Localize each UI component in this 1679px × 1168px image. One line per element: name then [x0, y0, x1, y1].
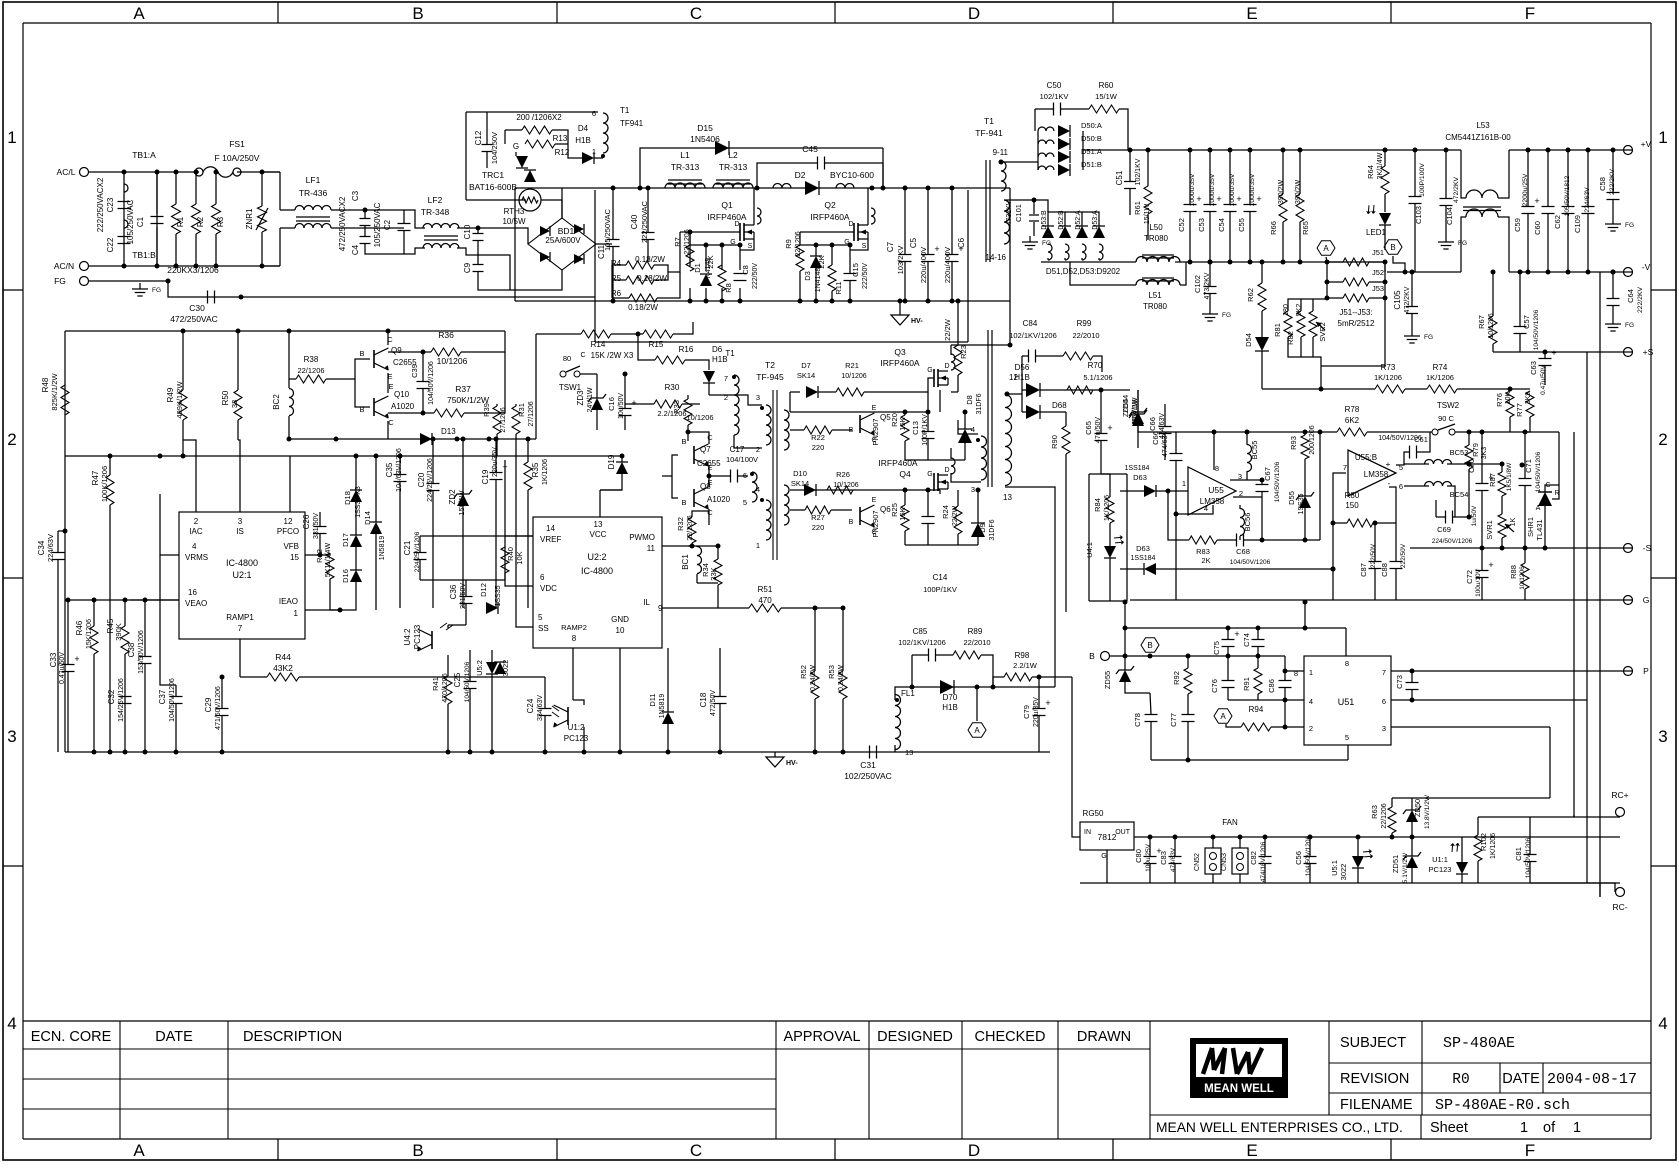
wire — [1586, 352, 1588, 883]
svg-text:331/50V: 331/50V — [313, 513, 320, 539]
junction — [1188, 260, 1193, 265]
svg-text:1K/1206: 1K/1206 — [1490, 833, 1497, 859]
capacitor C101 — [1029, 214, 1039, 216]
svg-text:D51:B: D51:B — [1081, 160, 1102, 169]
capacitor C104 — [1440, 198, 1453, 200]
wire — [1509, 389, 1511, 391]
resistor R77 — [1526, 391, 1534, 417]
wire — [1022, 411, 1026, 413]
wire — [800, 231, 854, 233]
resistor R36 — [431, 348, 461, 356]
wire — [238, 440, 240, 512]
resistor R61 — [1144, 186, 1152, 214]
wire — [1410, 547, 1633, 549]
wire — [57, 560, 59, 752]
svg-text:31DF6: 31DF6 — [989, 519, 996, 540]
junction — [1260, 478, 1265, 483]
junction — [1298, 148, 1303, 153]
svg-text:C76: C76 — [1210, 679, 1219, 693]
wire — [1175, 432, 1177, 453]
svg-text:+: + — [1234, 629, 1239, 639]
svg-text:TSW2: TSW2 — [1437, 401, 1460, 410]
resistor R66 — [1279, 194, 1287, 222]
svg-text:C13: C13 — [911, 421, 920, 435]
wire — [612, 188, 614, 239]
svg-text:C85: C85 — [913, 627, 928, 636]
resistor R31 — [512, 406, 520, 434]
resistor R1 — [172, 204, 181, 234]
wire — [1367, 431, 1432, 433]
wire — [600, 474, 622, 490]
wire — [1100, 441, 1102, 474]
junction — [1186, 758, 1191, 763]
wire — [1393, 256, 1405, 272]
junction — [214, 264, 219, 269]
junction — [601, 154, 605, 158]
svg-text:C9: C9 — [463, 262, 472, 273]
junction — [220, 675, 225, 680]
svg-text:TB1:A: TB1:A — [132, 150, 156, 160]
svg-text:D15: D15 — [697, 123, 713, 133]
svg-text:6: 6 — [743, 471, 747, 480]
junction — [1263, 835, 1268, 840]
transformer T1 primary winding — [1005, 395, 1012, 486]
svg-text:D55: D55 — [1287, 491, 1296, 505]
svg-text:4732KV: 4732KV — [1006, 200, 1013, 225]
svg-text:C22: C22 — [106, 237, 115, 252]
svg-text:104/100V: 104/100V — [726, 455, 758, 464]
wire — [1022, 355, 1028, 357]
resistor R6 — [629, 294, 657, 302]
svg-text:15/1W: 15/1W — [1095, 92, 1118, 101]
svg-text:IN: IN — [1084, 829, 1091, 836]
terminal B — [1101, 652, 1110, 661]
wire — [183, 440, 400, 456]
junction — [1123, 600, 1128, 605]
wire — [692, 511, 709, 517]
wire — [911, 655, 913, 687]
wire — [964, 443, 966, 460]
wire — [927, 412, 929, 431]
svg-text:G: G — [927, 367, 932, 374]
junction — [848, 299, 853, 304]
wire — [404, 248, 425, 254]
svg-text:200 /1206X2: 200 /1206X2 — [516, 113, 562, 122]
wire — [1261, 492, 1263, 497]
capacitor C9 — [473, 264, 484, 266]
junction — [1281, 260, 1286, 265]
wire — [789, 392, 791, 412]
svg-text:R64: R64 — [1366, 165, 1375, 179]
wire — [237, 171, 241, 173]
svg-text:TF-945: TF-945 — [756, 372, 784, 382]
wire — [927, 262, 929, 301]
wire — [1453, 516, 1469, 518]
op-amp U55:B — [1348, 450, 1396, 496]
junction — [1543, 546, 1548, 551]
wire — [1384, 225, 1386, 250]
svg-text:VFB: VFB — [283, 542, 299, 551]
svg-text:C31: C31 — [860, 760, 876, 770]
wire — [447, 655, 449, 676]
junction — [1146, 148, 1151, 153]
junction — [1611, 270, 1616, 275]
wire — [1227, 656, 1229, 680]
capacitor C63 — [1539, 358, 1552, 360]
junction — [720, 243, 725, 248]
wire — [709, 395, 762, 405]
diode D70 — [940, 680, 954, 694]
svg-text:R74: R74 — [1433, 363, 1448, 372]
wire — [640, 148, 883, 188]
capacitor C69 — [1445, 511, 1447, 524]
junction — [1238, 835, 1243, 840]
svg-text:22/2W: 22/2W — [943, 318, 952, 341]
junction — [446, 750, 451, 755]
wire — [1098, 258, 1100, 260]
diode D68 — [1026, 405, 1040, 419]
junction — [750, 472, 754, 476]
svg-text:-S: -S — [1643, 543, 1652, 553]
svg-text:RAMP1: RAMP1 — [226, 613, 254, 622]
wire — [1124, 656, 1126, 670]
svg-text:C29: C29 — [204, 697, 213, 712]
wire — [951, 188, 953, 254]
svg-text:ZD51: ZD51 — [1391, 855, 1400, 873]
wire — [1319, 432, 1321, 540]
wire — [195, 172, 197, 204]
svg-text:1K/1206: 1K/1206 — [1426, 373, 1454, 382]
svg-text:VCC: VCC — [590, 530, 607, 539]
wire — [422, 389, 424, 413]
wire — [1519, 334, 1521, 352]
svg-text:C68: C68 — [1236, 547, 1250, 556]
wire — [1284, 700, 1286, 727]
junction — [926, 186, 931, 191]
svg-text:390/2W: 390/2W — [1295, 180, 1302, 205]
capacitor C87 — [1369, 561, 1382, 563]
wire — [144, 664, 146, 752]
junction — [1166, 489, 1171, 494]
svg-text:C109: C109 — [1573, 215, 1582, 233]
wire — [1175, 461, 1177, 514]
svg-text:31DF6: 31DF6 — [976, 393, 983, 414]
wire — [1369, 281, 1385, 283]
wire — [1032, 676, 1072, 678]
wire — [904, 188, 906, 254]
svg-text:C74: C74 — [1242, 633, 1251, 647]
wire — [1080, 882, 1620, 884]
capacitor C57 — [1514, 326, 1527, 328]
svg-text:H1B: H1B — [575, 136, 591, 145]
wire — [951, 344, 1010, 346]
svg-text:Q4: Q4 — [899, 469, 911, 479]
wire — [647, 188, 649, 232]
wire — [1461, 837, 1463, 862]
wire — [1125, 682, 1150, 693]
wire — [800, 244, 850, 246]
svg-text:0.18/2W: 0.18/2W — [637, 274, 667, 283]
capacitor C25 — [464, 681, 477, 683]
svg-text:G: G — [513, 142, 519, 151]
svg-text:B: B — [1390, 243, 1395, 252]
wire — [1549, 727, 1551, 798]
inductor L2 — [713, 183, 753, 188]
wire — [708, 390, 710, 395]
wire — [1547, 150, 1549, 206]
wire — [700, 607, 749, 609]
svg-text:104/250V: 104/250V — [490, 132, 499, 164]
thermal switch TSW1 — [560, 371, 566, 377]
wire — [1481, 491, 1483, 548]
zone ticks — [277, 2, 279, 23]
svg-text:B: B — [1089, 651, 1095, 661]
svg-text:U2:2: U2:2 — [587, 552, 606, 562]
wire — [465, 112, 467, 200]
junction — [1283, 698, 1288, 703]
wire — [1327, 261, 1343, 263]
svg-text:AC/L: AC/L — [57, 167, 76, 177]
resistor R13 — [522, 126, 552, 134]
svg-text:R63: R63 — [1370, 805, 1379, 819]
svg-text:J52: J52 — [1372, 268, 1384, 277]
capacitor C71 — [1519, 478, 1532, 480]
wire — [1151, 759, 1348, 761]
wire — [739, 245, 741, 270]
wire — [477, 228, 479, 233]
wire — [515, 434, 517, 456]
junction — [1566, 270, 1571, 275]
wire — [462, 439, 464, 494]
wire — [477, 241, 479, 264]
wire — [647, 240, 649, 262]
resistor R98 — [1004, 673, 1032, 681]
svg-text:C79: C79 — [1022, 705, 1031, 719]
diode D16 — [350, 570, 362, 582]
svg-text:C36: C36 — [449, 584, 458, 599]
svg-text:+: + — [1216, 194, 1221, 204]
wire — [1396, 452, 1409, 465]
wire — [708, 383, 710, 390]
svg-text:R78: R78 — [1345, 405, 1360, 414]
wire — [1072, 677, 1080, 837]
svg-text:R60: R60 — [1099, 81, 1114, 90]
svg-text:D16: D16 — [341, 569, 350, 583]
svg-text:R82: R82 — [1286, 331, 1295, 345]
svg-text:2K: 2K — [1201, 556, 1210, 565]
junction — [1331, 521, 1336, 526]
svg-text:C55: C55 — [1237, 218, 1246, 232]
wire — [1213, 432, 1215, 470]
capacitor C16 — [619, 408, 632, 410]
diode D54 — [1255, 337, 1269, 351]
wire — [432, 491, 434, 608]
wire — [1599, 883, 1601, 897]
svg-text:R23: R23 — [959, 345, 968, 359]
junction — [903, 299, 908, 304]
svg-text:R62: R62 — [1246, 288, 1255, 302]
svg-text:R89: R89 — [968, 627, 983, 636]
capacitor C21 — [414, 552, 427, 554]
capacitor C7 — [899, 254, 912, 256]
junction — [1318, 430, 1323, 435]
transformer T2 coil top — [734, 405, 739, 435]
wire — [491, 674, 493, 752]
wire — [719, 704, 721, 752]
junction — [490, 750, 495, 755]
svg-text:R8: R8 — [724, 283, 733, 293]
svg-text:2: 2 — [1309, 724, 1313, 733]
wire — [387, 421, 389, 439]
svg-text:1K/1206: 1K/1206 — [542, 459, 549, 485]
capacitor C23 — [118, 201, 131, 203]
junction — [690, 544, 695, 549]
svg-text:D9: D9 — [978, 523, 987, 533]
wire — [541, 200, 562, 218]
capacitor C8 — [734, 273, 747, 275]
wire — [1411, 798, 1413, 810]
wire — [1612, 200, 1614, 218]
junction — [122, 264, 127, 269]
wire — [690, 244, 740, 246]
svg-text:E: E — [1246, 1141, 1257, 1160]
junction — [155, 170, 160, 175]
junction — [1256, 654, 1261, 659]
wire — [904, 412, 906, 415]
wire — [1285, 670, 1304, 672]
junction — [848, 243, 853, 248]
junction — [991, 685, 996, 690]
svg-text:102/1KV/1206: 102/1KV/1206 — [1009, 331, 1057, 340]
svg-text:B: B — [1147, 641, 1152, 650]
wire — [1106, 850, 1108, 883]
wire — [1612, 306, 1614, 318]
wire — [505, 536, 533, 586]
svg-text:R73: R73 — [1381, 363, 1396, 372]
capacitor C60 — [1542, 206, 1555, 208]
wire — [1384, 262, 1386, 272]
ground HV- — [891, 315, 909, 325]
wire — [1527, 214, 1529, 272]
capacitor C66 — [1159, 426, 1172, 428]
wire — [993, 677, 1004, 687]
svg-text:R1: R1 — [176, 216, 185, 227]
junction — [1226, 626, 1231, 631]
svg-text:C18: C18 — [699, 692, 708, 707]
junction — [976, 438, 980, 442]
svg-text:R22: R22 — [811, 433, 825, 442]
wire — [1262, 388, 1375, 390]
svg-text:1SS184: 1SS184 — [1125, 465, 1150, 472]
resistor R60 — [1089, 105, 1119, 113]
svg-text:RC+: RC+ — [1611, 790, 1628, 800]
svg-text:B: B — [359, 349, 364, 358]
wire — [1120, 149, 1461, 151]
capacitor C15 — [844, 273, 857, 275]
wire — [1034, 109, 1036, 131]
resistor R87 — [1498, 472, 1506, 496]
svg-text:C50: C50 — [1047, 81, 1062, 90]
svg-text:C45: C45 — [802, 144, 818, 154]
svg-text:BC1: BC1 — [681, 554, 690, 570]
wire — [492, 228, 528, 244]
resistor R4 — [626, 261, 654, 269]
wire — [1417, 432, 1430, 452]
junction — [903, 488, 908, 493]
wire — [1109, 558, 1111, 601]
wire — [1321, 365, 1385, 367]
junction — [1526, 270, 1531, 275]
svg-text:C77: C77 — [1169, 713, 1178, 727]
svg-text:1N5406: 1N5406 — [690, 134, 720, 144]
wire — [831, 245, 833, 265]
op-amp U55 — [1188, 467, 1236, 515]
ground FG C58 — [1612, 218, 1614, 224]
wire — [957, 301, 959, 345]
capacitor C68 — [1236, 534, 1238, 547]
capacitor C45 — [817, 157, 819, 170]
wire — [1445, 150, 1447, 198]
svg-text:200/1206: 200/1206 — [1309, 425, 1316, 454]
wire — [279, 172, 281, 210]
wire — [842, 699, 844, 752]
svg-text:D51,D52,D53:D9202: D51,D52,D53:D9202 — [1046, 267, 1121, 276]
resistor R88 — [1521, 563, 1529, 589]
svg-text:10/1206: 10/1206 — [686, 413, 713, 422]
wire — [1436, 516, 1445, 518]
wire — [689, 288, 691, 301]
svg-text:22/2W: 22/2W — [952, 505, 959, 526]
wire — [612, 247, 614, 301]
wire — [1573, 432, 1575, 817]
junction — [181, 454, 186, 459]
wire — [600, 489, 622, 491]
svg-text:J51--J53:: J51--J53: — [1339, 308, 1372, 317]
svg-text:R102: R102 — [1479, 833, 1488, 851]
svg-text:D56: D56 — [1015, 363, 1030, 372]
junction — [220, 750, 225, 755]
svg-text:H1B: H1B — [942, 703, 958, 712]
terminal -V — [1624, 268, 1633, 277]
svg-text:R32: R32 — [676, 517, 685, 531]
wire — [668, 232, 680, 272]
capacitor C12 — [482, 144, 493, 146]
wire — [1461, 150, 1466, 198]
wire — [1126, 474, 1128, 601]
svg-text:1: 1 — [1309, 668, 1313, 677]
wire — [1261, 311, 1263, 337]
wire — [1120, 490, 1144, 492]
wire — [469, 689, 471, 752]
svg-text:R53: R53 — [827, 665, 836, 679]
junction — [1208, 260, 1213, 265]
wire — [319, 534, 321, 555]
wire — [717, 585, 719, 608]
svg-text:25A/600V: 25A/600V — [545, 236, 581, 245]
wire — [939, 390, 941, 412]
led LED1 — [1379, 213, 1391, 225]
wire — [1164, 434, 1166, 460]
svg-text:C87: C87 — [1359, 563, 1368, 577]
terminal +V — [1624, 146, 1633, 155]
capacitor C67 — [1256, 484, 1269, 486]
capacitor C1 — [151, 216, 164, 218]
wire — [305, 554, 320, 556]
svg-text:0.24/2W: 0.24/2W — [838, 665, 845, 691]
diode D10 — [804, 484, 816, 496]
svg-text:13: 13 — [594, 520, 603, 529]
wire — [364, 226, 366, 236]
